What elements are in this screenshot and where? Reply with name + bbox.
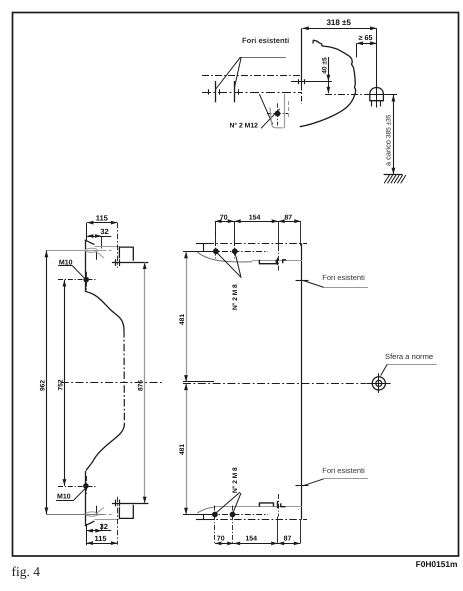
svg-text:876: 876 [138, 380, 145, 391]
svg-text:32: 32 [100, 522, 108, 531]
svg-text:N° 2 M12: N° 2 M12 [230, 123, 259, 130]
svg-text:a carico 385 ±35: a carico 385 ±35 [384, 114, 393, 166]
svg-text:40 ±5: 40 ±5 [321, 57, 328, 74]
svg-text:Fori esistenti: Fori esistenti [322, 466, 365, 475]
svg-text:87: 87 [284, 536, 292, 543]
svg-text:M10: M10 [57, 493, 71, 500]
svg-text:154: 154 [249, 214, 261, 221]
svg-text:481: 481 [179, 314, 186, 325]
svg-text:Sfera a norme: Sfera a norme [385, 352, 433, 361]
svg-text:Fori esistenti: Fori esistenti [242, 36, 289, 45]
svg-text:87: 87 [284, 214, 292, 221]
svg-text:481: 481 [179, 444, 186, 455]
svg-text:115: 115 [94, 534, 106, 543]
svg-text:F0H0151m: F0H0151m [416, 559, 458, 569]
svg-text:318 ±5: 318 ±5 [326, 18, 351, 27]
svg-text:154: 154 [245, 536, 257, 543]
svg-text:N° 2 M 8: N° 2 M 8 [232, 284, 239, 310]
svg-text:752: 752 [57, 379, 64, 390]
svg-text:70: 70 [217, 536, 225, 543]
svg-text:≥ 65: ≥ 65 [359, 33, 373, 42]
svg-text:115: 115 [96, 214, 108, 223]
svg-text:Fori esistenti: Fori esistenti [322, 273, 365, 282]
svg-text:N° 2 M 8: N° 2 M 8 [232, 467, 239, 493]
svg-text:32: 32 [100, 227, 108, 236]
svg-text:fig. 4: fig. 4 [12, 564, 41, 579]
svg-text:962: 962 [39, 380, 46, 391]
